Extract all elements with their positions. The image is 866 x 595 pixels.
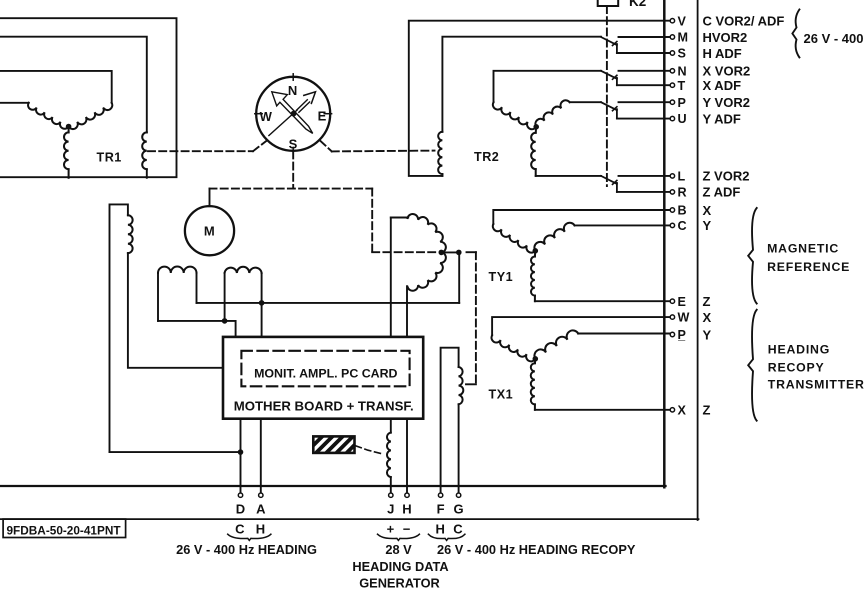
transformer TY1 left coil (493, 224, 535, 253)
svg-text:H ADF: H ADF (703, 46, 742, 61)
coil rotor upper winding (408, 214, 446, 252)
compass needle cross line (269, 110, 297, 136)
terminal F (bottom) (438, 493, 442, 497)
svg-text:GENERATOR: GENERATOR (359, 575, 440, 590)
wire TX1 Y lead to P (578, 333, 670, 335)
node bus junction at L2 left leg (222, 319, 227, 324)
terminal C (670, 223, 674, 227)
wire pickup bottom run to D line (110, 451, 241, 453)
coil heading recopy feed winding (459, 367, 464, 404)
terminal L (670, 174, 674, 178)
svg-text:TR1: TR1 (97, 151, 122, 165)
terminal V (670, 19, 674, 23)
svg-text:X ADF: X ADF (703, 78, 742, 93)
svg-text:T: T (678, 79, 686, 93)
wire terminal H line upper (406, 286, 408, 337)
svg-text:C: C (453, 522, 463, 537)
box MOTHER BOARD + TRANSF. (223, 337, 423, 419)
wire TR1 stator X top lead (0, 71, 112, 103)
svg-text:S: S (678, 47, 686, 61)
wire terminal A line (260, 419, 262, 493)
svg-text:RECOPY: RECOPY (768, 360, 825, 374)
wire L2 left leg (224, 273, 226, 321)
transformer TR1 stator left coil (28, 103, 69, 129)
wire TR2 stator Y lead to P (570, 101, 601, 103)
wire terminal J line upper (390, 218, 392, 337)
title block box 9FDBA-50-20-41PNT (3, 519, 126, 537)
svg-text:HEADING DATA: HEADING DATA (352, 559, 448, 574)
svg-text:P̲: P̲ (678, 328, 686, 342)
svg-text:TRANSMITTER: TRANSMITTER (768, 377, 865, 391)
wire dashed coupling compass lower-right stub (320, 141, 332, 152)
svg-text:HEADING: HEADING (768, 343, 830, 357)
svg-text:Z VOR2: Z VOR2 (703, 169, 750, 184)
svg-text:TY1: TY1 (489, 270, 514, 284)
coil monitor pickup winding (128, 215, 133, 253)
wire dashed horizontal to motor and resolver (210, 188, 373, 190)
brace under H C (428, 534, 465, 540)
wire TY1 Y lead to C (575, 224, 671, 226)
node TX1 star point (533, 357, 538, 362)
node rotor junction 2 (457, 250, 462, 255)
wire dashed rotor to TX1 feed coil (coupling) (467, 251, 476, 253)
svg-text:M: M (204, 224, 215, 239)
compass needle small arrow NE head (304, 92, 316, 104)
relay K2 box (598, 0, 619, 6)
wire long horizontal bus (rotor to amplifier coils) (197, 302, 460, 304)
transformer TR2 stator left coil (493, 102, 536, 129)
transformer TR1 stator bottom coil (68, 127, 70, 133)
terminal R (670, 190, 674, 194)
svg-text:26 V - 400 Hz HEADING: 26 V - 400 Hz HEADING (176, 542, 317, 557)
wire terminal J line through-card segment (390, 419, 392, 433)
brace 26 V - 400 group (792, 10, 799, 58)
wire dashed coupling compass lower-left stub (253, 141, 267, 151)
wire dashed coupling TR1 to compass (148, 150, 253, 152)
terminal P (670, 100, 674, 104)
svg-text:B: B (678, 204, 687, 218)
wire rotor junction 2 down (458, 252, 460, 303)
wire terminal J line lower (390, 477, 392, 493)
svg-text:Y: Y (703, 327, 712, 342)
terminal H (bottom) (405, 493, 409, 497)
transformer TR2 primary winding (438, 132, 442, 174)
coil on J line (heading data output) (387, 433, 391, 478)
wire lower horizontal bus into card (158, 321, 236, 337)
wire main box right border (663, 0, 666, 487)
wire outer box bottom border (0, 518, 699, 520)
wire terminal H line lower (406, 419, 408, 493)
node TR2 star point (534, 125, 539, 130)
terminal M (670, 35, 674, 39)
compass tick E (324, 113, 331, 115)
svg-text:−: − (403, 522, 411, 537)
wire terminal D line (240, 419, 242, 493)
wire rotor junction link (442, 251, 459, 253)
compass center pivot (291, 111, 296, 116)
wire L1 right leg (196, 273, 198, 303)
wire rotor top lead (J) (391, 217, 408, 219)
wire TR1 secondary top lead (0, 37, 147, 133)
relay contact L/R (601, 176, 617, 184)
svg-text:S: S (289, 136, 298, 151)
svg-text:TR2: TR2 (474, 150, 499, 164)
svg-text:E: E (318, 109, 327, 124)
terminal E (670, 299, 674, 303)
svg-text:C: C (235, 522, 245, 537)
node TR1 star point (66, 124, 71, 129)
wire TR2 stator X lead to N (494, 71, 602, 102)
terminal G (bottom) (456, 493, 460, 497)
svg-text:MONIT. AMPL. PC CARD: MONIT. AMPL. PC CARD (254, 367, 397, 381)
svg-text:28 V: 28 V (385, 542, 412, 557)
terminal D (bottom) (238, 493, 242, 497)
wire TX1 X lead to W (492, 317, 670, 335)
wire terminal F line (441, 348, 459, 493)
terminal W (670, 315, 674, 319)
wire dashed link hatched block to J coil (356, 446, 381, 454)
wire pickup pair left conductor (110, 204, 128, 452)
svg-text:HVOR2: HVOR2 (703, 30, 748, 45)
terminal J (bottom) (389, 493, 393, 497)
wire TR2 primary bottom lead to V (409, 21, 671, 176)
svg-text:D: D (236, 501, 245, 516)
terminal T (670, 83, 674, 87)
transformer TX1 bottom coil (534, 359, 536, 363)
compass tick N (292, 74, 294, 80)
node bus junction at L2 right leg (259, 301, 264, 306)
svg-text:E: E (678, 295, 686, 309)
relay contact N/T (601, 71, 617, 79)
svg-text:C: C (678, 219, 687, 233)
svg-text:H: H (402, 501, 411, 516)
wire TR2 primary top lead to M (442, 37, 601, 132)
wire TR2 stator Z lead to L (536, 175, 601, 177)
svg-text:L: L (678, 170, 686, 184)
terminal B (670, 208, 674, 212)
relay contact P/U (601, 102, 617, 110)
svg-text:MAGNETIC: MAGNETIC (767, 241, 839, 255)
svg-text:X VOR2: X VOR2 (703, 64, 751, 79)
coil L2 (right amplifier choke) (225, 267, 262, 273)
svg-text:W: W (678, 311, 690, 325)
svg-text:26 V - 400: 26 V - 400 (804, 31, 864, 46)
brace HEADING RECOPY TRANSMITTER group (748, 310, 757, 421)
compass rose circle (256, 77, 330, 151)
svg-text:Z ADF: Z ADF (703, 185, 741, 200)
svg-text:Z: Z (703, 403, 711, 418)
wire dashed relay K2 actuator line (606, 6, 608, 186)
compass tick S (292, 147, 294, 153)
compass tick W (255, 113, 262, 115)
svg-text:V: V (678, 14, 687, 28)
transformer TY1 right coil (534, 223, 574, 251)
wire TY1 X lead to B (493, 210, 670, 224)
wire TX1 Z lead to X (535, 409, 671, 411)
svg-text:Z: Z (703, 294, 711, 309)
terminal A (bottom) (259, 493, 263, 497)
compass needle small arrow NE body (297, 100, 310, 113)
svg-text:H: H (436, 522, 445, 537)
terminal P (670, 332, 674, 336)
compass needle (big, NW) (272, 92, 313, 134)
node TY1 star point (533, 249, 538, 254)
terminal U (670, 116, 674, 120)
svg-text:X: X (703, 203, 712, 218)
coil rotor lower winding (408, 252, 446, 290)
svg-text:Y ADF: Y ADF (703, 111, 741, 126)
terminal S (670, 51, 674, 55)
svg-text:R: R (678, 186, 687, 200)
svg-text:+: + (387, 522, 395, 537)
svg-text:9FDBA-50-20-41PNT: 9FDBA-50-20-41PNT (7, 523, 122, 537)
wire dashed coupling compass to TR2 (332, 150, 435, 153)
svg-text:Y VOR2: Y VOR2 (703, 95, 750, 110)
svg-text:26 V - 400 Hz HEADING RECOPY: 26 V - 400 Hz HEADING RECOPY (437, 542, 636, 557)
transformer TX1 left coil (492, 335, 536, 361)
svg-text:REFERENCE: REFERENCE (767, 260, 850, 274)
relay contact M/S (601, 37, 617, 45)
wire L1 left leg (157, 273, 159, 321)
brace under C H (228, 534, 271, 540)
wire dashed compass S output down (292, 151, 294, 188)
transformer TR2 stator bottom coil (535, 127, 538, 133)
svg-text:N: N (678, 64, 687, 78)
svg-text:A: A (256, 501, 266, 516)
svg-text:X: X (678, 403, 687, 417)
svg-text:U: U (678, 112, 687, 126)
wire terminal G line (458, 404, 460, 493)
terminal N (670, 69, 674, 73)
transformer TX1 right coil (534, 330, 578, 358)
transformer TY1 bottom coil (534, 251, 536, 257)
svg-text:F: F (437, 501, 445, 516)
wire TR1 secondary bottom lead (146, 169, 148, 178)
svg-text:J: J (387, 501, 394, 516)
svg-text:TX1: TX1 (489, 388, 514, 402)
wire main box bottom border (0, 485, 666, 487)
wire dashed horizontal into rotor junction (372, 251, 438, 253)
terminal X (670, 408, 674, 412)
svg-text:K2: K2 (629, 0, 646, 9)
wire TR1 stator Y top lead (0, 102, 29, 104)
transformer TR1 secondary winding (142, 132, 147, 169)
svg-text:P: P (678, 96, 686, 110)
transformer TR2 stator right coil (535, 100, 569, 126)
wire pickup pair right conductor into card (128, 253, 223, 368)
wire TR2 primary winding bottom stub (441, 174, 443, 176)
node rotor junction 1 (439, 250, 444, 255)
svg-text:M: M (678, 31, 689, 45)
box dashed MONIT. AMPL. PC CARD (241, 351, 409, 387)
coil L1 (left amplifier choke) (158, 267, 197, 273)
wire motor M top lead (209, 189, 211, 207)
svg-text:H: H (256, 522, 265, 537)
brace under + - (378, 534, 420, 540)
svg-text:W: W (260, 109, 273, 124)
wire dashed vertical to resolver rotor (371, 189, 373, 253)
wire L2 right leg (261, 273, 263, 337)
svg-text:Y: Y (703, 218, 712, 233)
node D line junction (238, 450, 243, 455)
wire top loop to V (TR1 area outer) (0, 18, 177, 177)
svg-text:N: N (288, 83, 297, 98)
svg-text:MOTHER BOARD + TRANSF.: MOTHER BOARD + TRANSF. (234, 398, 414, 413)
brace MAGNETIC REFERENCE group (748, 208, 757, 304)
svg-text:X: X (703, 310, 712, 325)
wire TY1 Z lead to E (535, 300, 671, 302)
svg-text:G: G (454, 501, 464, 516)
wire outer box right border (697, 0, 699, 520)
motor M (185, 206, 234, 255)
transformer TR1 stator right coil (69, 103, 113, 129)
svg-text:C VOR2/ ADF: C VOR2/ ADF (703, 14, 785, 29)
hatched block (mechanical flag) (303, 436, 396, 453)
